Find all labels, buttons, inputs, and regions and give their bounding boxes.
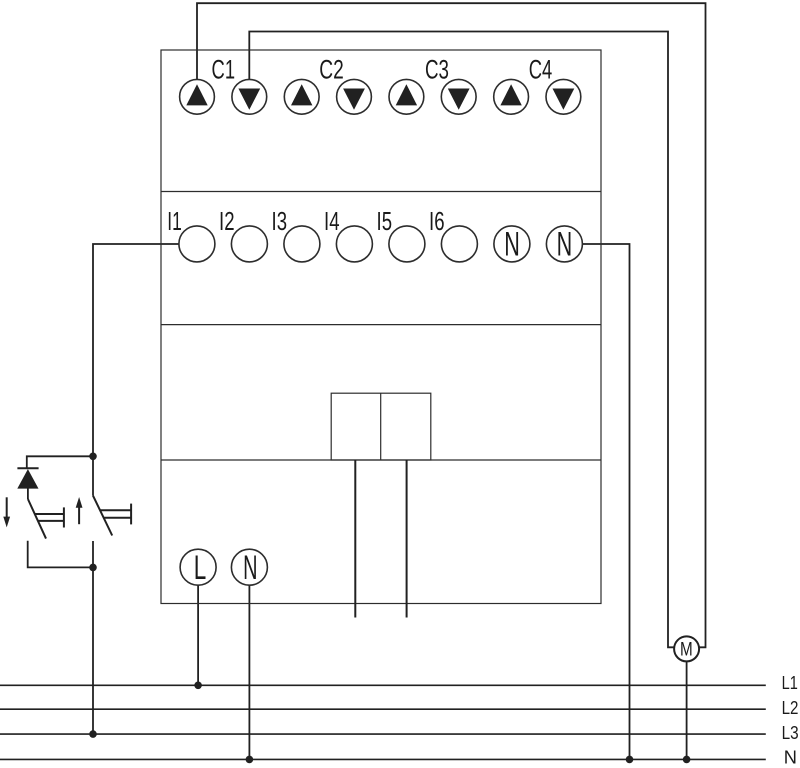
- svg-text:N: N: [784, 747, 797, 768]
- svg-text:I3: I3: [272, 206, 288, 236]
- svg-text:C3: C3: [425, 55, 449, 85]
- svg-text:L: L: [194, 549, 207, 587]
- svg-text:C4: C4: [529, 55, 553, 85]
- svg-text:I1: I1: [167, 206, 182, 236]
- svg-text:L3: L3: [782, 722, 799, 743]
- svg-text:L2: L2: [782, 697, 799, 718]
- svg-text:I5: I5: [377, 206, 393, 236]
- svg-text:C2: C2: [319, 55, 344, 85]
- svg-text:N: N: [243, 549, 257, 587]
- svg-text:N: N: [504, 226, 520, 264]
- svg-text:I6: I6: [429, 206, 445, 236]
- svg-text:M: M: [680, 638, 693, 660]
- svg-text:I4: I4: [324, 206, 340, 236]
- svg-text:I2: I2: [219, 206, 235, 236]
- svg-text:N: N: [557, 226, 573, 264]
- svg-text:C1: C1: [212, 55, 236, 85]
- svg-text:L1: L1: [782, 672, 798, 693]
